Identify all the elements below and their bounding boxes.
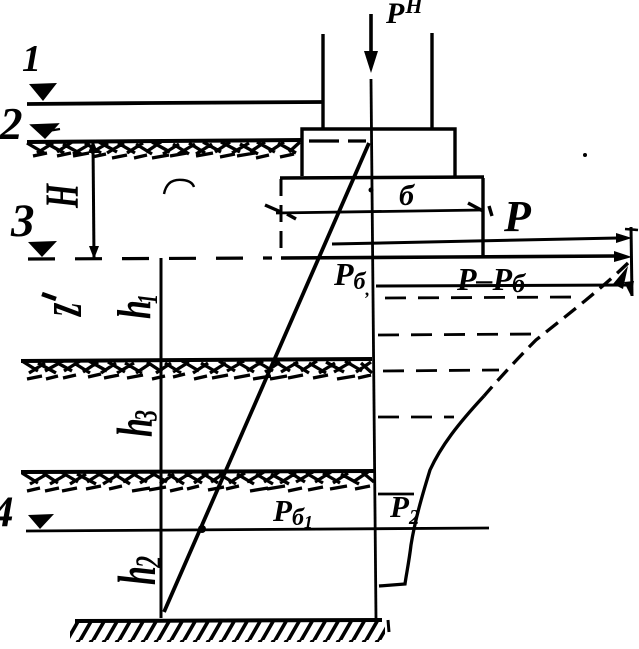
svg-text:H: H (35, 183, 88, 209)
svg-text:P–Pб: P–Pб (456, 261, 526, 298)
svg-text:3: 3 (128, 410, 164, 422)
svg-text:б: б (399, 179, 415, 212)
svg-text:h: h (107, 566, 167, 585)
svg-text:4: 4 (0, 489, 14, 536)
svg-text:Pб1: Pб1 (272, 493, 313, 532)
svg-text:3: 3 (10, 195, 35, 247)
svg-text:1: 1 (22, 38, 41, 80)
svg-text:2: 2 (127, 556, 170, 569)
svg-text:PH: PH (385, 0, 423, 30)
svg-text:1: 1 (133, 294, 164, 304)
svg-text:P: P (503, 192, 532, 241)
svg-text:Pб,: Pб, (333, 256, 370, 299)
svg-text:P2: P2 (389, 489, 420, 529)
svg-text:2: 2 (0, 99, 23, 149)
svg-text:z: z (31, 302, 94, 317)
